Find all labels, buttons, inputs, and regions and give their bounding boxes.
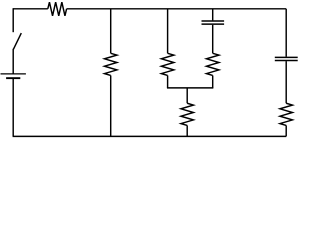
capacitor C1 plate 1	[202, 20, 225, 22]
wire branch C bottom	[212, 75, 214, 87]
wire bottom	[13, 135, 287, 137]
wire branch B bottom	[167, 75, 169, 87]
battery V1 short plate	[6, 77, 20, 79]
wire capacitor C2 to resistor R6	[285, 61, 287, 103]
resistor R6	[280, 103, 293, 125]
capacitor C2 plate 2	[275, 59, 298, 61]
resistor R1	[48, 2, 67, 16]
resistor R2	[104, 53, 117, 75]
resistor R3	[161, 53, 174, 75]
capacitor C1 plate 2	[202, 23, 225, 25]
battery V1 long plate	[1, 73, 26, 75]
wire switch to battery	[12, 49, 14, 74]
wire branch C top	[212, 9, 214, 21]
wire branch D top	[285, 9, 287, 57]
resistor R5	[181, 103, 194, 125]
wire branch D bottom	[285, 125, 287, 136]
wire left stub to switch	[12, 8, 14, 32]
wire branch A bottom	[110, 75, 112, 136]
resistor R4	[206, 53, 219, 75]
wire battery to bottom	[12, 78, 14, 136]
wire capacitor C1 to resistor R4	[212, 25, 214, 53]
capacitor C2 plate 1	[275, 56, 298, 58]
wire center tap bottom	[186, 125, 188, 136]
wire top-left segment	[13, 8, 48, 10]
wire branch A top	[110, 9, 112, 54]
switch S1	[13, 33, 21, 49]
wire top segment	[67, 8, 287, 10]
wire connector B-C	[167, 87, 213, 89]
wire center tap	[186, 88, 188, 103]
wire branch B top	[167, 9, 169, 54]
